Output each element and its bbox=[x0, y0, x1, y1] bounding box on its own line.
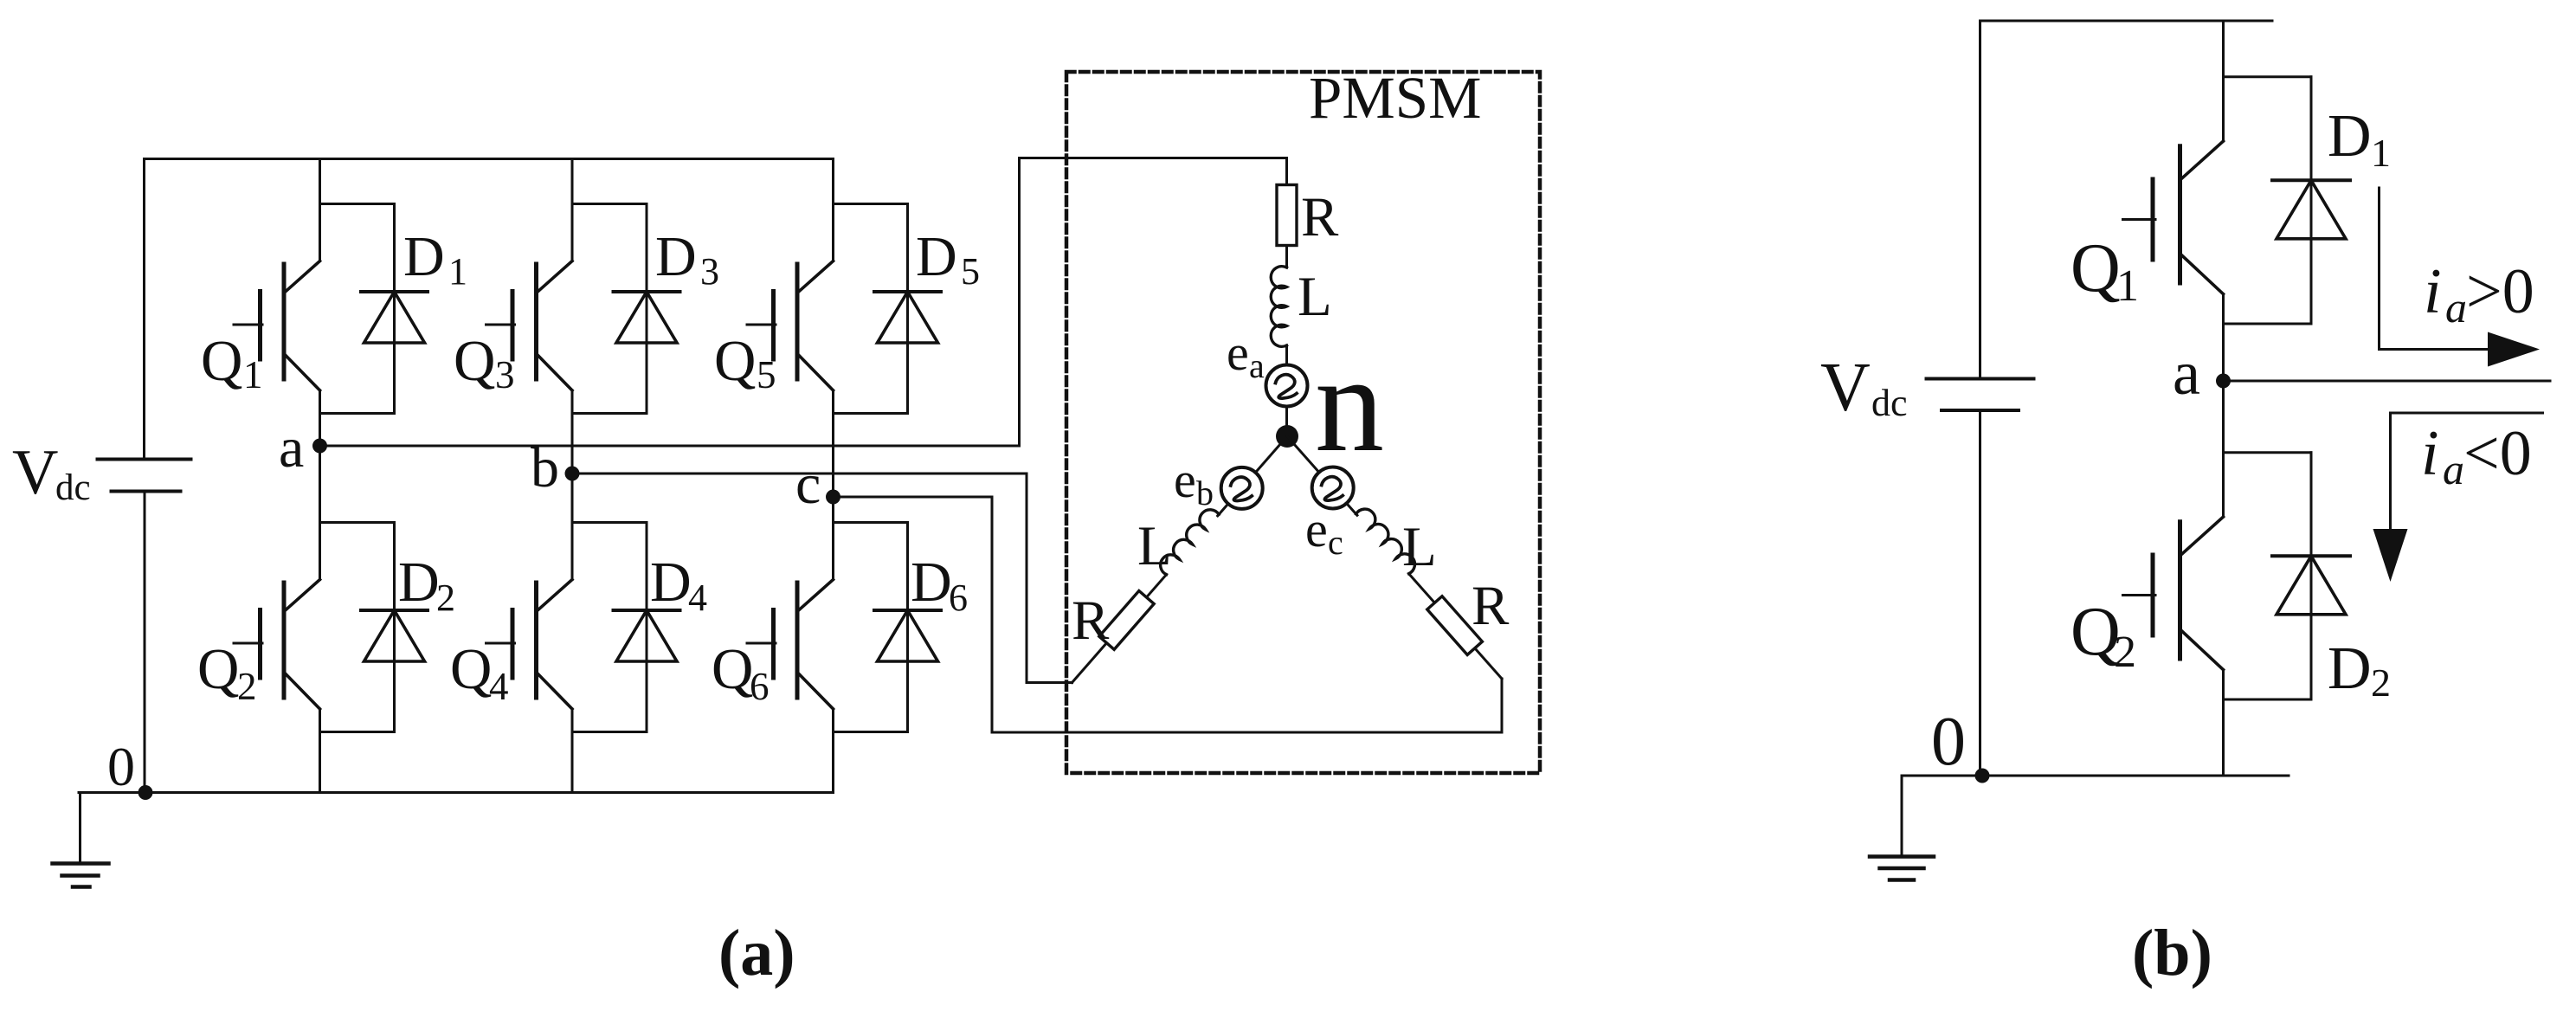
wire: L-R diagonal (phase b) bbox=[1072, 575, 1167, 683]
wire: bottom link Q6-D6 bbox=[834, 731, 908, 733]
wire: L-R diagonal (phase c) bbox=[1409, 574, 1502, 679]
transistor Q6 (IGBT) bbox=[747, 580, 834, 710]
wire: (b) DC-link leg upper bbox=[1979, 21, 1981, 379]
diode D2 (b) bbox=[2272, 453, 2350, 699]
svg-text:a: a bbox=[2173, 338, 2200, 408]
svg-text:6: 6 bbox=[949, 577, 968, 619]
svg-text:4: 4 bbox=[489, 665, 509, 708]
label D6 bbox=[911, 551, 968, 619]
ground (b) bbox=[1870, 857, 1934, 880]
wire: top link Q1-D1 bbox=[320, 203, 395, 205]
svg-text:(a): (a) bbox=[718, 917, 795, 989]
wire: L-ea lead (phase a) bbox=[1285, 345, 1288, 436]
wire: R top lead (phase a) bbox=[1285, 158, 1288, 187]
wire: (b) phase a output bbox=[2224, 380, 2551, 383]
wire: emitter of Q6 to -rail bbox=[832, 709, 834, 793]
diode D1 (b) bbox=[2272, 77, 2350, 324]
diode D5 bbox=[874, 204, 941, 414]
wire: phase b to PMSM (horizontal) bbox=[572, 473, 1027, 475]
wire: emitter of Q5 to node bbox=[832, 390, 834, 497]
svg-text:Q: Q bbox=[712, 637, 753, 701]
wire: (b) Q1 collector from +rail bbox=[2222, 21, 2225, 141]
inductor L (phase b) bbox=[1161, 510, 1219, 575]
wire: n to eb diagonal bbox=[1218, 436, 1287, 516]
label D5 bbox=[916, 225, 980, 293]
wire: emitter of Q2 to -rail bbox=[319, 709, 321, 793]
svg-text:1: 1 bbox=[2371, 131, 2391, 175]
svg-text:2: 2 bbox=[436, 577, 455, 619]
svg-text:2: 2 bbox=[2371, 660, 2391, 705]
wire: (a) DC-link left leg upper bbox=[143, 159, 145, 460]
capacitor Vdc (a) bbox=[98, 460, 191, 492]
label Q2 bbox=[197, 637, 257, 708]
label D1 (b) bbox=[2328, 103, 2391, 175]
svg-text:e: e bbox=[1174, 452, 1196, 508]
wire: (b) positive DC rail bbox=[1980, 20, 2273, 23]
wire: collector of Q3 from +rail bbox=[571, 159, 574, 261]
transistor Q1 (IGBT) bbox=[234, 261, 320, 391]
wire: top link Q5-D5 bbox=[834, 203, 908, 205]
svg-text:L: L bbox=[1137, 515, 1172, 577]
svg-text:L: L bbox=[1298, 266, 1332, 328]
wire: bottom link Q3-D3 bbox=[572, 412, 647, 415]
resistor R (phase b) bbox=[1099, 590, 1154, 649]
transistor Q2 (IGBT) bbox=[234, 580, 320, 710]
wire: (a) negative DC rail bbox=[79, 791, 834, 794]
arrow ia>0 bbox=[2380, 188, 2541, 367]
wire: phase b drop bbox=[1026, 474, 1028, 683]
svg-text:V: V bbox=[12, 437, 58, 508]
label ia>0 bbox=[2424, 256, 2534, 332]
wire: (b) Q2 collector from node a bbox=[2222, 381, 2225, 517]
wire: collector of Q1 from +rail bbox=[319, 159, 321, 261]
transistor Q4 (IGBT) bbox=[486, 580, 573, 710]
label ia<0 bbox=[2421, 418, 2532, 493]
svg-text:PMSM: PMSM bbox=[1309, 65, 1481, 131]
node a (b) bbox=[2216, 374, 2231, 389]
svg-text:i: i bbox=[2424, 256, 2442, 327]
label ec bbox=[1305, 501, 1343, 562]
label D4 bbox=[650, 551, 707, 619]
diode D6 bbox=[874, 523, 941, 732]
label Q3 bbox=[454, 329, 515, 396]
resistor R (phase c) bbox=[1427, 596, 1483, 655]
node n bbox=[1276, 425, 1298, 448]
label Q1 (b) bbox=[2070, 230, 2139, 311]
wire: (b) top link Q1-D1 bbox=[2224, 75, 2312, 78]
diode D4 bbox=[614, 523, 680, 732]
svg-text:(b): (b) bbox=[2132, 917, 2212, 989]
label D2 (b) bbox=[2328, 635, 2391, 705]
wire: (b) Q1 emitter to node a bbox=[2222, 294, 2225, 381]
svg-text:c: c bbox=[1328, 523, 1343, 562]
svg-text:Q: Q bbox=[2070, 230, 2121, 306]
label Q1 bbox=[201, 329, 263, 396]
wire: (a) positive DC rail bbox=[145, 158, 834, 160]
svg-text:D: D bbox=[398, 551, 440, 614]
wire: bottom link Q2-D2 bbox=[320, 731, 395, 733]
svg-text:D: D bbox=[403, 225, 445, 288]
diode D1 bbox=[361, 204, 428, 414]
svg-text:e: e bbox=[1305, 501, 1328, 557]
svg-text:1: 1 bbox=[448, 250, 467, 293]
wire: (b) bottom link Q1-D1 bbox=[2224, 323, 2312, 325]
wire: top link Q3-D3 bbox=[572, 203, 647, 205]
svg-text:2: 2 bbox=[2114, 628, 2136, 677]
svg-text:R: R bbox=[1472, 575, 1510, 637]
svg-text:V: V bbox=[1820, 350, 1871, 426]
svg-text:1: 1 bbox=[2116, 261, 2139, 311]
wire: collector of Q2 from node bbox=[319, 446, 321, 580]
svg-text:b: b bbox=[1196, 474, 1214, 512]
wire: top link Q2-D2 bbox=[320, 521, 395, 524]
label Q6 bbox=[712, 637, 770, 708]
svg-text:1: 1 bbox=[243, 353, 263, 396]
EMF source ea bbox=[1266, 365, 1308, 407]
node 0 (b) bbox=[1975, 769, 1990, 783]
svg-text:Q: Q bbox=[454, 329, 495, 393]
wire: bottom link Q4-D4 bbox=[572, 731, 647, 733]
svg-text:<0: <0 bbox=[2463, 418, 2532, 489]
svg-text:R: R bbox=[1301, 186, 1339, 248]
capacitor Vdc (b) bbox=[1927, 379, 2034, 411]
wire: (b) negative DC rail bbox=[1902, 775, 2289, 777]
diode D3 bbox=[614, 204, 680, 414]
wire: top link Q4-D4 bbox=[572, 521, 647, 524]
svg-text:n: n bbox=[1315, 326, 1384, 480]
EMF source ec bbox=[1312, 467, 1354, 509]
label D1 bbox=[403, 225, 467, 293]
svg-text:dc: dc bbox=[1871, 382, 1908, 424]
node c bbox=[826, 490, 840, 505]
svg-text:4: 4 bbox=[688, 577, 707, 619]
svg-text:D: D bbox=[650, 551, 692, 614]
svg-text:a: a bbox=[2443, 445, 2464, 493]
diode D2 bbox=[361, 523, 428, 732]
wire: (b) Q2 emitter to -rail bbox=[2222, 670, 2225, 776]
wire: (b) ground stem bbox=[1901, 776, 1903, 857]
wire: phase a to PMSM (horizontal) bbox=[320, 445, 1020, 448]
svg-text:Q: Q bbox=[450, 637, 492, 701]
svg-text:2: 2 bbox=[237, 665, 257, 708]
svg-text:3: 3 bbox=[700, 250, 719, 293]
resistor R (phase a) bbox=[1277, 185, 1297, 246]
svg-text:a: a bbox=[279, 416, 304, 480]
wire: phase c to PMSM (horizontal) bbox=[834, 496, 993, 499]
wire: bottom link Q1-D1 bbox=[320, 412, 395, 415]
transistor Q5 (IGBT) bbox=[747, 261, 834, 391]
wire: phase c drop bbox=[991, 497, 994, 732]
wire: collector of Q4 from node bbox=[571, 474, 574, 580]
wire: top link Q6-D6 bbox=[834, 521, 908, 524]
wire: emitter of Q1 to node bbox=[319, 390, 321, 446]
inductor L (phase a) bbox=[1271, 267, 1286, 347]
svg-text:3: 3 bbox=[495, 353, 515, 396]
svg-text:5: 5 bbox=[757, 353, 776, 396]
ground (a) bbox=[53, 864, 109, 887]
svg-text:6: 6 bbox=[750, 665, 770, 708]
wire: phase b into PMSM bbox=[1027, 681, 1072, 684]
svg-text:0: 0 bbox=[107, 736, 135, 797]
EMF source eb bbox=[1221, 467, 1263, 509]
wire: (b) bottom link Q2-D2 bbox=[2224, 699, 2312, 701]
svg-text:>0: >0 bbox=[2466, 256, 2534, 327]
svg-text:D: D bbox=[911, 551, 952, 614]
label Q4 bbox=[450, 637, 509, 708]
svg-text:Q: Q bbox=[197, 637, 239, 701]
transistor Q1 (IGBT, b) bbox=[2123, 141, 2224, 294]
wire: phase a riser bbox=[1018, 158, 1021, 447]
wire: R-L lead (phase a) bbox=[1285, 246, 1288, 268]
node 0 (a) bbox=[138, 785, 153, 800]
wire: phase c into PMSM bbox=[992, 731, 1502, 734]
svg-text:0: 0 bbox=[1931, 704, 1966, 780]
wire: emitter of Q3 to node bbox=[571, 390, 574, 474]
wire: (b) top link Q2-D2 bbox=[2224, 451, 2312, 454]
svg-text:R: R bbox=[1072, 590, 1110, 652]
wire: emitter of Q4 to -rail bbox=[571, 709, 574, 793]
label Vdc (a) bbox=[12, 437, 91, 508]
svg-text:D: D bbox=[655, 225, 697, 288]
node a bbox=[312, 439, 327, 454]
wire: phase a into PMSM bbox=[1020, 157, 1287, 159]
inductor L (phase c) bbox=[1356, 509, 1415, 574]
wire: phase c riser inside PMSM bbox=[1501, 679, 1504, 732]
svg-text:c: c bbox=[795, 453, 821, 516]
transistor Q2 (IGBT, b) bbox=[2123, 517, 2224, 670]
wire: collector of Q5 from +rail bbox=[832, 159, 834, 261]
svg-text:a: a bbox=[1249, 346, 1265, 385]
PMSM dashed box bbox=[1066, 72, 1540, 773]
svg-text:L: L bbox=[1402, 516, 1437, 578]
svg-text:e: e bbox=[1227, 325, 1249, 381]
arrow ia<0 bbox=[2373, 413, 2543, 582]
label Vdc (b) bbox=[1820, 350, 1908, 426]
wire: collector of Q6 from node bbox=[832, 497, 834, 580]
label Q2 (b) bbox=[2070, 594, 2136, 677]
svg-text:i: i bbox=[2421, 418, 2439, 489]
svg-text:Q: Q bbox=[714, 329, 756, 393]
wire: (b) DC-link leg lower bbox=[1979, 410, 1981, 776]
svg-text:D: D bbox=[2328, 635, 2372, 702]
svg-text:dc: dc bbox=[55, 467, 91, 508]
svg-text:Q: Q bbox=[201, 329, 242, 393]
svg-text:a: a bbox=[2445, 283, 2467, 332]
label D2 bbox=[398, 551, 455, 619]
svg-text:5: 5 bbox=[961, 250, 980, 293]
wire: bottom link Q5-D5 bbox=[834, 412, 908, 415]
label eb bbox=[1174, 452, 1214, 512]
label D3 bbox=[655, 225, 719, 293]
wire: (a) DC-link left leg lower bbox=[144, 492, 146, 793]
svg-text:D: D bbox=[916, 225, 957, 288]
label Q5 bbox=[714, 329, 776, 396]
wire: (a) ground stem bbox=[79, 793, 81, 864]
label ea bbox=[1227, 325, 1265, 385]
node b bbox=[565, 467, 580, 481]
wire: n to ec diagonal bbox=[1287, 436, 1357, 515]
transistor Q3 (IGBT) bbox=[486, 261, 573, 391]
svg-text:D: D bbox=[2328, 103, 2372, 170]
